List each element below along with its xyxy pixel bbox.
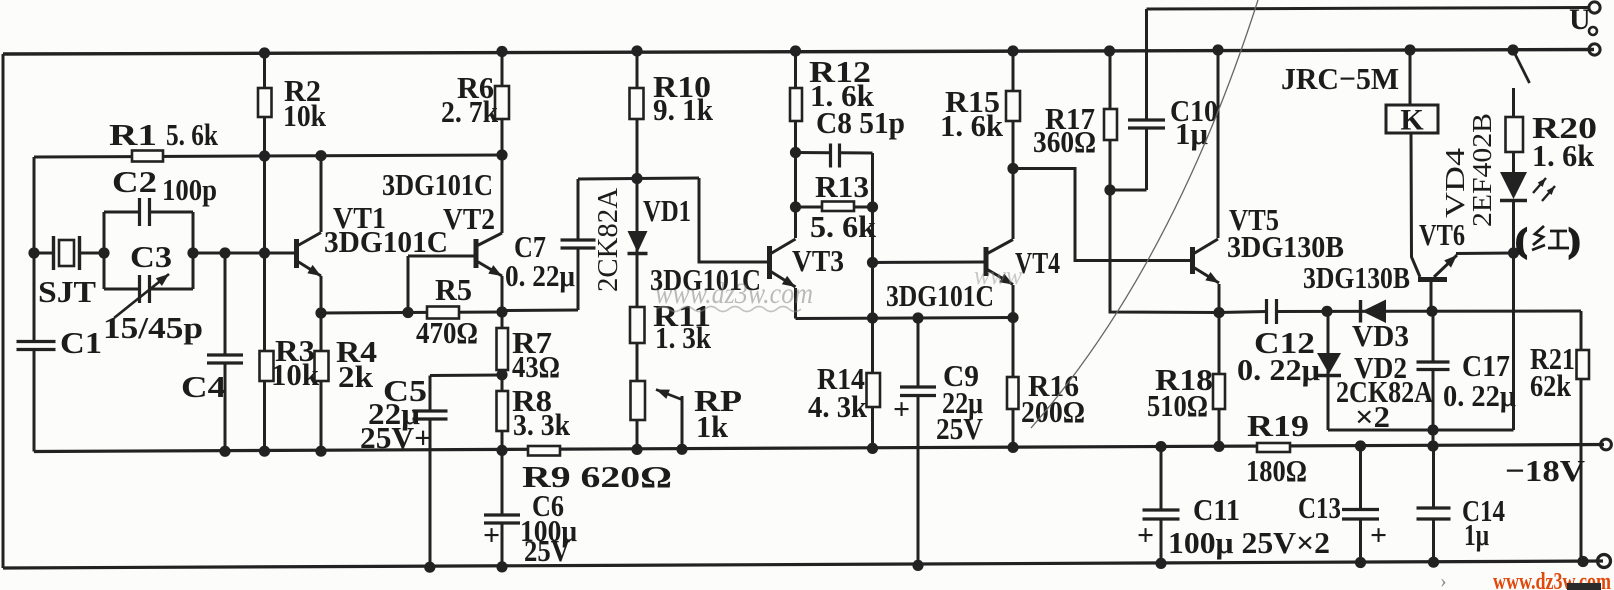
resistor R15 (1006, 91, 1020, 121)
wire (1145, 9, 1148, 120)
svg-text:200Ω: 200Ω (1021, 394, 1085, 429)
junction (315, 307, 326, 318)
wire (3, 561, 1603, 568)
wire (1580, 311, 1583, 562)
junction (631, 45, 642, 56)
wire (840, 151, 873, 154)
junction (219, 247, 230, 258)
capacitor C9 (900, 387, 936, 396)
junction (496, 445, 507, 456)
crystal SJT (54, 236, 80, 270)
wire (796, 318, 1014, 319)
wire (1109, 51, 1112, 190)
junction (790, 201, 801, 212)
wire (320, 156, 323, 232)
svg-text:1. 6k: 1. 6k (940, 108, 1004, 143)
resistor R20 (1506, 117, 1524, 152)
svg-text:C3: C3 (130, 239, 172, 274)
wire (1432, 519, 1435, 562)
wire (1012, 285, 1015, 318)
wire (871, 153, 874, 448)
terminal (1589, 27, 1597, 35)
capacitor C7 (561, 240, 596, 248)
junction (1577, 556, 1588, 567)
wire (1219, 312, 1267, 313)
resistor R12 (790, 88, 802, 121)
wire (577, 248, 580, 310)
wire (636, 51, 639, 449)
junction (867, 312, 878, 323)
svg-text:0. 22μ: 0. 22μ (505, 258, 575, 293)
wire (104, 288, 139, 291)
wire (1012, 51, 1015, 239)
wire (1160, 447, 1163, 511)
svg-text:62k: 62k (1530, 368, 1572, 403)
svg-text:): ) (1569, 222, 1580, 258)
capacitor C8 (831, 144, 840, 168)
junction (1427, 424, 1438, 435)
junction (1007, 442, 1018, 453)
LED VD4 (1500, 172, 1555, 201)
junction (28, 247, 39, 258)
svg-text:VT6: VT6 (1419, 217, 1465, 252)
junction (912, 312, 923, 323)
junction (631, 173, 642, 184)
junction (1212, 44, 1223, 55)
svg-text:+: + (483, 519, 500, 552)
wire (681, 396, 684, 449)
junction (1104, 184, 1115, 195)
wire (34, 252, 53, 255)
wire (917, 396, 920, 566)
terminal U+ (1589, 2, 1600, 13)
scan blob (1567, 583, 1601, 590)
svg-text:VD4: VD4 (1440, 147, 1470, 218)
svg-text:3DG130B: 3DG130B (1303, 260, 1410, 295)
resistor R11 (630, 307, 645, 343)
wire (224, 363, 227, 452)
svg-text:100p: 100p (162, 172, 217, 207)
wire (1110, 190, 1219, 313)
resistor R7 (497, 328, 509, 370)
wire (33, 350, 36, 452)
svg-text:K: K (1400, 104, 1424, 137)
transistor VT3 (770, 239, 796, 287)
wire (501, 52, 504, 234)
wire (501, 451, 504, 516)
potentiometer RP (631, 381, 684, 420)
resistor R19 (1257, 443, 1290, 452)
junction (1355, 557, 1366, 568)
svg-text:0. 22μ: 0. 22μ (1443, 378, 1516, 413)
svg-text:2k: 2k (338, 359, 374, 394)
capacitor C1 (17, 342, 56, 350)
svg-text:R1: R1 (109, 117, 157, 152)
junction (219, 446, 230, 457)
svg-text:(: ( (1516, 222, 1527, 258)
svg-text:C4: C4 (181, 369, 226, 404)
svg-text:1μ: 1μ (1464, 517, 1489, 552)
junction (676, 444, 687, 455)
svg-text:×2: ×2 (1355, 399, 1390, 434)
svg-text:10k: 10k (283, 98, 327, 133)
wire (1217, 50, 1220, 238)
wire (321, 312, 502, 313)
wire (34, 155, 502, 157)
resistor R5 (427, 307, 459, 319)
junction (496, 561, 507, 572)
wire (796, 151, 831, 154)
wire (794, 51, 797, 238)
junction (496, 306, 507, 317)
wire (34, 445, 1604, 452)
scan crease (1031, 0, 1258, 428)
capacitor C6 (484, 515, 520, 523)
svg-text:3DG130B: 3DG130B (1227, 229, 1344, 264)
svg-text:C11: C11 (1193, 492, 1240, 527)
junction (1321, 306, 1332, 317)
junction (259, 150, 270, 161)
resistor R3 (260, 351, 274, 381)
svg-text:5. 6k: 5. 6k (166, 117, 219, 152)
capacitor C4 (207, 355, 243, 363)
wire (192, 212, 195, 289)
wire (103, 212, 106, 289)
resistor R1 (132, 151, 163, 162)
svg-text:3DG101C: 3DG101C (382, 167, 493, 202)
junction (259, 446, 270, 457)
wire (917, 318, 920, 387)
wire (1160, 519, 1163, 563)
capacitor C12 (1267, 299, 1277, 324)
wire (2, 54, 5, 568)
svg-text:10k: 10k (271, 357, 320, 392)
junction (1213, 307, 1224, 318)
wire (224, 253, 227, 355)
svg-text:R5: R5 (435, 272, 472, 307)
wire (699, 178, 767, 262)
junction (1104, 45, 1115, 56)
wire (1456, 252, 1514, 256)
svg-text:470Ω: 470Ω (416, 315, 478, 350)
watermark small (974, 261, 1023, 290)
svg-text:25V+: 25V+ (360, 420, 432, 455)
svg-text:www.dz3w.com: www.dz3w.com (655, 277, 813, 310)
junction (1508, 247, 1519, 258)
svg-text:C2: C2 (112, 164, 157, 199)
capacitor C10 (1128, 120, 1165, 128)
wire (429, 419, 432, 567)
junction (259, 247, 270, 258)
watermark (655, 277, 813, 312)
wire (1110, 189, 1147, 192)
diode VD1 (628, 231, 648, 254)
junction (1155, 441, 1166, 452)
resistor R17 (1104, 109, 1117, 140)
wire (1359, 519, 1362, 563)
junction (98, 247, 109, 258)
wire (1327, 312, 1330, 431)
svg-text:R19: R19 (1247, 408, 1309, 443)
junction (496, 369, 507, 380)
svg-text:+: + (1370, 519, 1387, 552)
wire (263, 53, 266, 452)
junction (790, 45, 801, 56)
wire (3, 50, 1594, 55)
svg-text:15/45p: 15/45p (103, 310, 203, 345)
svg-text:180Ω: 180Ω (1246, 453, 1307, 488)
wire (1411, 133, 1420, 277)
terminal (1598, 555, 1611, 568)
resistor R4 (315, 351, 329, 381)
capacitor C11 (1143, 510, 1180, 519)
wire (104, 211, 139, 214)
svg-text:2. 7k: 2. 7k (441, 94, 499, 129)
capacitor C14 (1417, 508, 1451, 519)
svg-text:VT3: VT3 (792, 243, 844, 278)
svg-text:1. 6k: 1. 6k (1532, 138, 1595, 173)
junction (1428, 557, 1439, 568)
svg-text:5. 6k: 5. 6k (810, 209, 877, 244)
wire (430, 374, 502, 378)
wire (407, 256, 410, 313)
svg-text:›: › (1440, 570, 1447, 590)
junction (315, 150, 326, 161)
switch (1513, 50, 1530, 83)
svg-text:VD3: VD3 (1352, 318, 1409, 353)
wire (80, 252, 105, 255)
terminal -18V (1601, 439, 1612, 450)
svg-text:100μ 25V×2: 100μ 25V×2 (1168, 525, 1330, 560)
wire (1277, 310, 1582, 314)
resistor R21 (1577, 350, 1590, 379)
wire (1218, 313, 1221, 447)
junction (496, 46, 507, 57)
transistor VT5 (1193, 239, 1220, 283)
junction (1007, 312, 1018, 323)
svg-text:−18V: −18V (1505, 453, 1586, 488)
wire (1013, 169, 1190, 261)
svg-text:C8 51p: C8 51p (816, 105, 905, 140)
junction (1007, 163, 1018, 174)
wire (1432, 312, 1435, 363)
wire (796, 206, 873, 209)
wire (1432, 370, 1435, 431)
svg-text:360Ω: 360Ω (1033, 124, 1096, 159)
wire (1012, 318, 1015, 448)
diode VD2 (1317, 353, 1341, 376)
wire (429, 376, 432, 412)
diode VD3 (1361, 300, 1387, 324)
capacitor C13 (1342, 510, 1379, 520)
resistor R8 (497, 391, 509, 431)
wire (794, 288, 797, 319)
junction (912, 560, 923, 571)
wire (320, 276, 323, 451)
resistor R6 (495, 86, 509, 119)
svg-text:C1: C1 (60, 325, 102, 360)
wire (1409, 50, 1412, 105)
wire (1147, 8, 1590, 10)
transistor VT4 (986, 240, 1013, 285)
junction (867, 201, 878, 212)
resistor R13 (822, 202, 854, 212)
junction (424, 562, 435, 573)
junction (631, 444, 642, 455)
wire (501, 523, 504, 567)
wire (1512, 152, 1515, 172)
wire (193, 252, 294, 255)
relay K (1386, 104, 1438, 137)
wire (1432, 430, 1435, 447)
wire (408, 255, 474, 258)
capacitor C2 (140, 198, 150, 226)
wire (1218, 284, 1221, 313)
capacitor C5 (413, 411, 448, 419)
wire (1328, 429, 1514, 432)
junction (315, 446, 326, 457)
svg-text:+: + (893, 393, 910, 426)
label (red) (1516, 222, 1580, 258)
svg-text:SJT: SJT (38, 274, 96, 309)
junction (402, 307, 413, 318)
svg-text:43Ω: 43Ω (512, 349, 560, 384)
svg-text:R13: R13 (815, 169, 869, 204)
wire (150, 288, 193, 291)
junction (187, 247, 198, 258)
svg-text:3DG101C: 3DG101C (324, 224, 448, 259)
wire (501, 276, 504, 451)
svg-text:VT2: VT2 (443, 201, 495, 236)
junction (259, 47, 270, 58)
svg-text:C13: C13 (1298, 490, 1341, 525)
resistor R2 (258, 88, 272, 117)
junction (1213, 441, 1224, 452)
wire (1512, 201, 1515, 431)
svg-text:2EF402B: 2EF402B (1467, 113, 1497, 227)
junction (1507, 44, 1518, 55)
svg-text:VD1: VD1 (643, 193, 691, 228)
junction (1007, 45, 1018, 56)
svg-text:0. 22μ: 0. 22μ (1237, 352, 1320, 387)
wire (1432, 446, 1435, 508)
svg-text:1k: 1k (696, 409, 729, 444)
junction (496, 149, 507, 160)
terminal (1589, 44, 1600, 55)
resistor R16 (1007, 377, 1019, 409)
wire (1145, 128, 1148, 190)
svg-text:25V: 25V (936, 411, 984, 446)
transistor VT1 (265, 233, 322, 277)
svg-text:+: + (1137, 519, 1154, 552)
junction (867, 257, 878, 268)
wire (502, 309, 578, 313)
svg-text:510Ω: 510Ω (1147, 388, 1208, 423)
wire (1512, 88, 1515, 117)
resistor R14 (867, 373, 881, 407)
junction (1404, 44, 1415, 55)
junction (1427, 440, 1438, 451)
resistor R10 (630, 88, 644, 119)
svg-text:www: www (974, 261, 1023, 290)
capacitor C17 (1417, 362, 1450, 370)
variable capacitor C3 (114, 274, 169, 318)
resistor R9 (528, 446, 560, 456)
wire (578, 178, 699, 179)
transistor VT6 (1418, 255, 1457, 280)
wire (577, 179, 580, 240)
svg-text:1. 3k: 1. 3k (655, 320, 712, 355)
junction (1426, 306, 1437, 317)
svg-text:4. 3k: 4. 3k (808, 389, 868, 424)
junction (790, 147, 801, 158)
svg-text:3. 3k: 3. 3k (513, 407, 571, 442)
svg-text:2CK82A: 2CK82A (592, 188, 624, 292)
svg-text:JRC−5M: JRC−5M (1281, 61, 1399, 96)
resistor R18 (1213, 374, 1225, 409)
wire (150, 211, 193, 214)
svg-text:U: U (1569, 3, 1591, 36)
wire (1359, 446, 1362, 510)
svg-text:9. 1k: 9. 1k (653, 92, 714, 127)
svg-text:25V: 25V (524, 533, 571, 568)
junction (1355, 440, 1366, 451)
junction (1155, 558, 1166, 569)
transistor VT2 (476, 233, 502, 276)
wire (873, 261, 985, 265)
junction (867, 443, 878, 454)
wire (1430, 281, 1433, 312)
wire (33, 157, 36, 342)
